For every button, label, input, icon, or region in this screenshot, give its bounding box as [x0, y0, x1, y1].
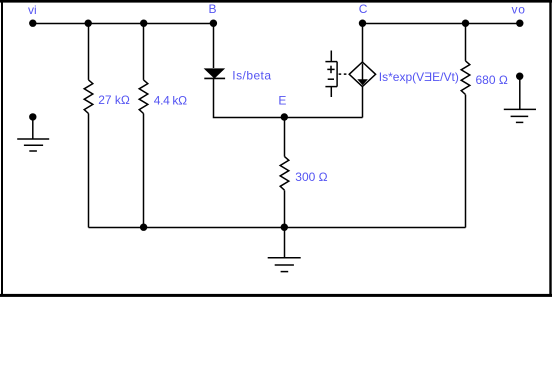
svg-text:27 kΩ: 27 kΩ: [98, 93, 130, 107]
frame left: [1, 0, 3, 297]
resistor R2 4.4k: [139, 80, 148, 114]
junction R4 top: [462, 20, 469, 27]
wire vi to B: [33, 23, 214, 25]
wire R1 top: [88, 24, 90, 80]
junction R2 top: [140, 20, 147, 27]
sense probe plus-minus element: [325, 51, 337, 98]
junction R1 top: [85, 20, 92, 27]
wire R1 bottom: [88, 114, 90, 228]
svg-text:300 Ω: 300 Ω: [295, 170, 327, 184]
ground emitter: [268, 228, 301, 272]
junction E ground: [281, 224, 288, 231]
wire B to diode: [213, 24, 215, 69]
svg-text:680 Ω: 680 Ω: [476, 73, 508, 87]
svg-text:E: E: [278, 94, 286, 108]
resistor R1 27k: [84, 80, 93, 114]
terminal vo: [516, 20, 523, 27]
wire E to R3: [284, 118, 286, 157]
wire R3 bottom: [284, 190, 286, 227]
wire R2 bottom: [143, 114, 145, 228]
node E: [281, 113, 288, 120]
resistor R3 300: [280, 157, 289, 191]
node C: [359, 20, 366, 27]
svg-text:4.4 kΩ: 4.4 kΩ: [154, 93, 187, 107]
svg-text:Is*exp(VƎE/Vt): Is*exp(VƎE/Vt): [379, 70, 459, 84]
wire R2 top: [143, 24, 145, 80]
ground input reference: [17, 120, 49, 152]
wire diode to E wire: [214, 79, 363, 118]
node B: [210, 20, 217, 27]
bottom wire: [89, 227, 466, 229]
svg-text:Is/beta: Is/beta: [232, 69, 271, 83]
ground output reference: [504, 79, 536, 122]
svg-text:vi: vi: [28, 3, 37, 17]
resistor R4 680: [461, 61, 470, 95]
wire R4 bottom: [465, 95, 467, 228]
svg-text:B: B: [209, 2, 217, 16]
diode D1: [204, 69, 225, 79]
svg-text:vo: vo: [512, 2, 526, 16]
frame top: [0, 0, 552, 3]
terminal vi: [29, 20, 36, 27]
wire source bottom: [362, 87, 364, 118]
wire R4 top: [465, 24, 467, 61]
wire C to vo: [363, 23, 521, 25]
dashed control link: [339, 73, 349, 75]
wire C to source: [362, 24, 364, 63]
frame bottom: [0, 294, 552, 297]
controlled current source U1: [349, 62, 375, 87]
frame right: [549, 0, 551, 297]
junction R2 bottom: [140, 224, 147, 231]
svg-text:C: C: [359, 2, 368, 16]
